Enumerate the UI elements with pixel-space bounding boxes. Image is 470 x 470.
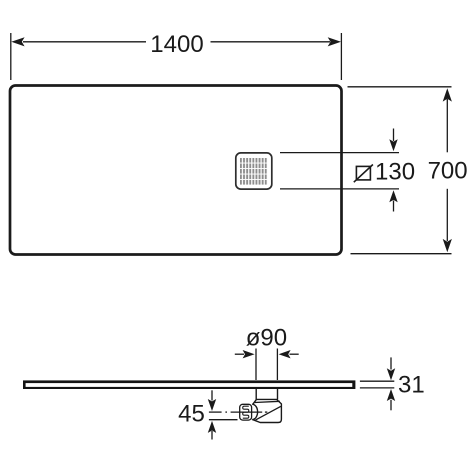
dimension 130 upper arrow pointing down	[389, 129, 397, 152]
dimension 700 bottom arrow	[443, 239, 452, 252]
siphon diagonal line	[255, 406, 281, 420]
square-section symbol	[354, 165, 373, 183]
dimension 1400 left arrow	[11, 37, 24, 46]
dimension 130 lower arrow pointing up	[389, 190, 397, 211]
dimension 700 top arrow	[443, 88, 452, 101]
dimension o90 extension line right	[276, 349, 278, 381]
dimension 1400 right arrow	[328, 37, 341, 46]
siphon nut	[240, 404, 252, 420]
drain grate	[236, 153, 272, 189]
svg-text:700: 700	[428, 158, 468, 185]
dimension 700 line	[446, 99, 448, 241]
45 lower reference line	[209, 419, 238, 421]
dimension 700 extension line bottom	[351, 253, 452, 255]
dimension 130 extension line top	[280, 152, 399, 154]
siphon dome	[252, 404, 258, 419]
svg-text:1400: 1400	[150, 31, 203, 58]
dimension o90 right arrow	[279, 350, 299, 358]
dimension 45 upper arrow pointing down	[208, 390, 216, 411]
siphon nut corrugation	[243, 406, 249, 418]
dimension 1400 extension line left	[10, 33, 12, 80]
drain pipe below tray	[256, 389, 277, 400]
tray profile (side view)	[23, 380, 355, 389]
svg-text:31: 31	[398, 372, 425, 399]
dimension 700 extension line top	[348, 86, 452, 88]
svg-text:45: 45	[178, 401, 205, 428]
dimension 1400 line	[23, 41, 330, 43]
tray outline (top view)	[10, 86, 342, 255]
siphon trap body	[253, 399, 282, 422]
svg-text:130: 130	[375, 158, 415, 185]
dimension 1400 extension line right	[340, 33, 342, 80]
dimension 31 extension line top	[360, 380, 394, 382]
svg-text:ø90: ø90	[246, 325, 287, 352]
dimension o90 left arrow	[235, 350, 255, 358]
siphon centerline	[209, 411, 267, 413]
dimension o90 extension line left	[255, 349, 257, 381]
dimension 31 lower arrow pointing up	[387, 389, 395, 410]
dimension 45 lower arrow pointing up	[208, 421, 216, 440]
dimension 31 extension line bottom	[360, 387, 394, 389]
siphon collar line	[255, 401, 280, 402]
dimension 130 extension line bottom	[280, 188, 399, 190]
dimension 31 upper arrow pointing down	[387, 357, 395, 380]
